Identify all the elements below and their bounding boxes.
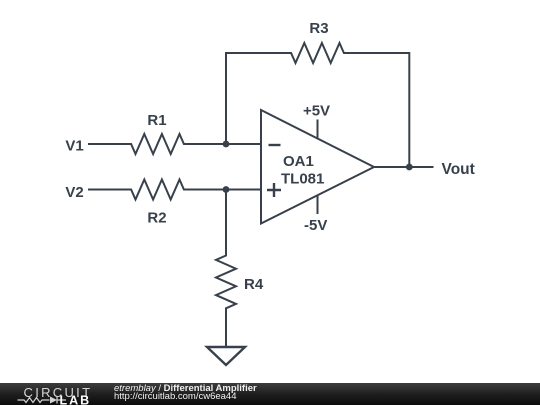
svg-text:-5V: -5V (304, 217, 327, 234)
svg-text:Vout: Vout (442, 161, 475, 178)
svg-text:R3: R3 (309, 20, 328, 37)
svg-text:OA1: OA1 (283, 153, 314, 170)
svg-text:+5V: +5V (303, 103, 330, 120)
svg-text:TL081: TL081 (281, 171, 324, 188)
svg-text:R4: R4 (244, 276, 264, 293)
svg-text:R1: R1 (147, 112, 166, 129)
svg-text:V1: V1 (65, 138, 83, 155)
svg-text:R2: R2 (147, 210, 166, 227)
svg-text:V2: V2 (65, 184, 83, 201)
svg-text:LAB: LAB (60, 393, 92, 405)
